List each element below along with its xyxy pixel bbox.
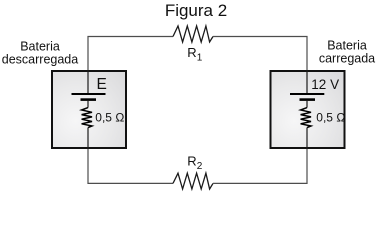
wire right box top lead bbox=[306, 70, 308, 93]
svg-text:R2: R2 bbox=[187, 154, 202, 173]
wire top-right segment bbox=[213, 37, 307, 71]
wire left cell to internal resistor bbox=[87, 101, 89, 108]
svg-text:Bateria: Bateria bbox=[327, 39, 367, 53]
svg-text:carregada: carregada bbox=[319, 52, 375, 66]
svg-text:0,5 Ω: 0,5 Ω bbox=[316, 111, 345, 125]
internal resistance left 0,5 ohm bbox=[82, 108, 92, 128]
wire right box bottom lead bbox=[306, 128, 308, 149]
svg-text:E: E bbox=[97, 76, 107, 93]
resistor R1 bbox=[173, 26, 213, 42]
wire left box top lead bbox=[87, 70, 89, 93]
battery cell 12V: short plate bbox=[300, 98, 316, 101]
wire top-left segment bbox=[88, 37, 173, 71]
wire left box bottom lead bbox=[87, 128, 89, 149]
svg-text:Bateria: Bateria bbox=[20, 40, 60, 54]
internal resistance right 0,5 ohm bbox=[301, 108, 311, 128]
svg-text:descarregada: descarregada bbox=[2, 53, 78, 67]
svg-text:12 V: 12 V bbox=[311, 77, 339, 92]
svg-text:0,5 Ω: 0,5 Ω bbox=[95, 111, 124, 125]
resistor R2 bbox=[173, 173, 213, 189]
wire right cell to internal resistor bbox=[306, 101, 308, 108]
battery box left (discharged) bbox=[52, 71, 126, 148]
wire bottom-left segment bbox=[88, 149, 173, 183]
label "Bateria carregada" bbox=[319, 39, 375, 66]
label "Bateria descarregada" bbox=[2, 40, 78, 67]
battery cell 12V: long plate bbox=[290, 93, 324, 95]
wire bottom-right segment bbox=[213, 149, 307, 183]
battery cell E: short plate bbox=[81, 98, 97, 101]
battery box right (charged) bbox=[271, 71, 345, 148]
svg-text:Figura 2: Figura 2 bbox=[165, 1, 227, 20]
battery cell E: long plate bbox=[72, 93, 106, 95]
svg-text:R1: R1 bbox=[187, 45, 202, 64]
